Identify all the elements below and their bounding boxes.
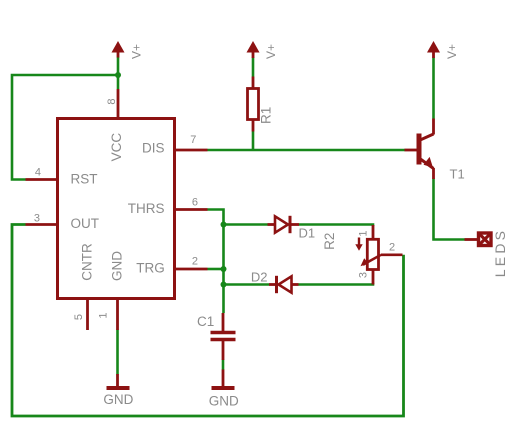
pin number 7: [190, 134, 196, 146]
ground symbol under IC: [107, 374, 130, 388]
label T1: [450, 167, 465, 182]
pin number 3 (R2 bottom): [358, 272, 370, 278]
wire THRS net: pin 6 right and down to C1: [208, 210, 224, 314]
diode D2: [269, 276, 299, 293]
pin number 1: [98, 313, 110, 319]
wire net from V+ down to pin 8: [117, 57, 120, 89]
label C1: [197, 314, 214, 329]
capacitor C1: [211, 313, 236, 360]
svg-text:6: 6: [192, 197, 198, 209]
node junction at pin8/V+: [115, 72, 121, 78]
svg-text:THRS: THRS: [128, 201, 165, 216]
pin name OUT: [71, 216, 100, 231]
label D2: [251, 269, 268, 284]
svg-text:D2: D2: [251, 269, 268, 284]
label V+ (middle): [264, 44, 278, 59]
pin number 2: [192, 255, 198, 267]
wire DIS net: pin 7 to transistor base: [208, 149, 406, 152]
pin name DIS: [142, 140, 165, 155]
svg-text:RST: RST: [71, 172, 98, 187]
wire V+ to T1 collector: [432, 58, 435, 119]
svg-text:8: 8: [106, 99, 118, 105]
node junction at D1 tee: [221, 222, 227, 228]
svg-text:7: 7: [190, 134, 196, 146]
wire R1 bottom to DIS net: [252, 132, 255, 151]
svg-text:R2: R2: [322, 233, 337, 250]
label GND (under C1): [209, 394, 239, 409]
svg-text:TRG: TRG: [136, 260, 165, 275]
label V+ (right): [445, 44, 459, 59]
label D1: [299, 226, 316, 241]
wire D2 to pot pin 3: [299, 283, 374, 285]
svg-text:1: 1: [98, 313, 110, 319]
pin name THRS: [128, 201, 165, 216]
label R1: [258, 107, 273, 124]
svg-text:V+: V+: [130, 44, 144, 59]
wire IC pin 1 to ground: [116, 330, 119, 375]
svg-text:T1: T1: [450, 167, 465, 182]
resistor R1: [248, 77, 259, 132]
svg-text:V+: V+: [264, 44, 278, 59]
supply V+ symbol (middle): [247, 41, 260, 58]
svg-text:GND: GND: [110, 251, 125, 281]
supply V+ symbol (left): [112, 41, 125, 58]
pin name RST: [71, 172, 98, 187]
node junction at TRG tee: [221, 266, 227, 272]
svg-text:2: 2: [389, 242, 395, 254]
svg-text:4: 4: [35, 167, 41, 179]
transistor T1: [405, 119, 434, 180]
pin name VCC: [109, 133, 124, 162]
svg-text:LEDS: LEDS: [492, 228, 508, 277]
svg-text:2: 2: [192, 255, 198, 267]
wire T1 emitter to LEDS: [434, 179, 465, 240]
pin 2 TRG stub: [175, 268, 208, 271]
label GND (under IC): [103, 392, 133, 407]
svg-text:DIS: DIS: [142, 140, 165, 155]
svg-text:OUT: OUT: [71, 216, 100, 231]
svg-text:V+: V+: [445, 44, 459, 59]
pin number 2 (R2 wiper): [389, 242, 395, 254]
wire C1 to ground: [222, 360, 225, 371]
connector LEDS: [465, 233, 492, 246]
svg-text:D1: D1: [299, 226, 316, 241]
pin 5 CNTR stub: [86, 299, 89, 331]
wire RST net: junction left and down to pin 4: [12, 75, 118, 180]
ground symbol under C1: [212, 370, 235, 389]
wire D1 cathode to pot pin 1: [299, 225, 373, 227]
svg-text:VCC: VCC: [109, 133, 124, 162]
pin 3 OUT stub: [26, 223, 58, 226]
pin number 5: [73, 314, 85, 320]
pin number 1 (R2 top): [358, 230, 370, 236]
pin 6 THRS stub: [175, 208, 208, 211]
pin number 3: [34, 213, 40, 225]
wire to D2: [224, 283, 270, 286]
pin number 4: [35, 167, 41, 179]
svg-text:C1: C1: [197, 314, 214, 329]
wire OUT net: down left side, along bottom, up to pot wiper: [12, 225, 404, 417]
supply V+ symbol (right): [427, 41, 440, 58]
pin 4 RST stub: [26, 178, 58, 181]
svg-text:GND: GND: [103, 392, 133, 407]
svg-text:5: 5: [73, 314, 85, 320]
pin number 8: [106, 99, 118, 105]
pin 7 DIS stub: [175, 149, 208, 152]
label LEDS: [492, 228, 508, 277]
diode D1: [268, 216, 300, 233]
svg-text:3: 3: [358, 272, 370, 278]
pin name CNTR: [80, 243, 95, 281]
wire to D1 anode: [224, 223, 268, 226]
IC body 555 timer: [58, 119, 175, 299]
potentiometer R2: [355, 225, 402, 285]
svg-text:R1: R1: [258, 107, 273, 124]
pin name GND: [110, 251, 125, 281]
node junction at D2 tee: [221, 282, 227, 288]
svg-text:GND: GND: [209, 394, 239, 409]
pin name TRG: [136, 260, 165, 275]
wire V+ to R1 top: [252, 58, 255, 77]
svg-text:CNTR: CNTR: [80, 243, 95, 281]
pin number 6: [192, 197, 198, 209]
svg-text:3: 3: [34, 213, 40, 225]
wire TRG stub to vertical net: [208, 268, 224, 271]
label R2: [322, 233, 337, 250]
pin 1 GND stub: [116, 299, 119, 331]
label V+ (left): [130, 44, 144, 59]
pin 8 VCC stub: [117, 89, 120, 119]
svg-text:1: 1: [358, 230, 370, 236]
